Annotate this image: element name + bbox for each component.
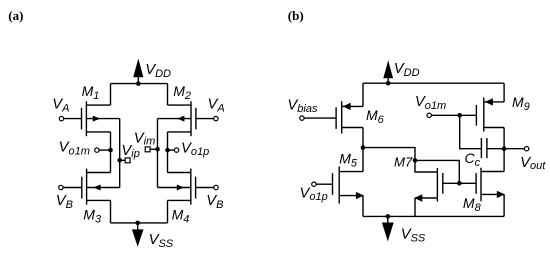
svg-text:VSS: VSS	[401, 227, 426, 245]
wire left drain column upper (a)	[110, 84, 112, 106]
label M5	[339, 151, 358, 170]
wire right drain column middle (a)	[167, 132, 169, 173]
label (a)	[8, 8, 23, 23]
svg-text:Vim: Vim	[134, 130, 155, 147]
power VSS (b)	[382, 214, 394, 241]
label VB left	[56, 193, 73, 211]
svg-text:Vo1p: Vo1p	[300, 186, 328, 203]
transistor M7	[414, 160, 459, 201]
terminal Vout	[524, 147, 528, 151]
svg-text:M8: M8	[463, 195, 482, 214]
wire bottom rail (b)	[363, 215, 504, 217]
transistor M8	[459, 168, 505, 202]
svg-text:VDD: VDD	[145, 62, 171, 80]
power VSS (a)	[132, 221, 144, 247]
terminal VB left	[59, 185, 63, 189]
label Cc	[465, 150, 481, 169]
svg-text:(a): (a)	[8, 8, 23, 23]
wire left bulk column (a)	[119, 119, 121, 188]
wire left drain column middle (a)	[110, 132, 112, 173]
node Vout junction	[502, 146, 507, 151]
label M1	[82, 83, 100, 102]
node first stage output junction	[361, 145, 366, 150]
svg-text:M4: M4	[172, 206, 190, 225]
label Vout	[520, 155, 546, 172]
wire left drain column lower (a)	[110, 200, 112, 223]
svg-text:VB: VB	[206, 193, 223, 211]
svg-text:M2: M2	[173, 83, 191, 102]
wire top rail (b)	[363, 82, 504, 84]
node M7 drain junction	[413, 158, 418, 163]
svg-text:Vo1p: Vo1p	[181, 141, 209, 158]
wire M5 source down (b)	[362, 196, 364, 217]
wire to Vout terminal	[504, 148, 524, 150]
svg-text:Vo1m: Vo1m	[59, 140, 90, 158]
node Vo1p	[165, 148, 179, 153]
wire M7 source down (b)	[414, 198, 416, 216]
svg-text:M3: M3	[83, 206, 102, 225]
wire M6 drain to M5 drain (b)	[362, 128, 364, 172]
wire node to mirror (b)	[363, 148, 415, 161]
wire bottom rail (a)	[111, 222, 168, 224]
node M9 gate junction	[457, 113, 462, 118]
label M2	[173, 83, 191, 102]
svg-text:M6: M6	[366, 107, 385, 126]
svg-text:(b): (b)	[288, 8, 304, 23]
terminal Vo1m (b)	[427, 113, 431, 117]
label Vo1p (b)	[300, 186, 328, 203]
wire M8 source down (b)	[503, 194, 505, 216]
svg-text:Vo1m: Vo1m	[415, 94, 446, 112]
terminal VA left	[59, 116, 63, 120]
svg-text:VB: VB	[56, 193, 73, 211]
label VDD (b)	[394, 61, 420, 79]
wire right drain column upper (a)	[167, 84, 169, 106]
label VA left	[52, 97, 69, 115]
wire gate node down to Cc (b)	[460, 115, 482, 148]
label Vbias	[287, 98, 318, 115]
svg-text:M5: M5	[339, 151, 358, 170]
terminal VB right	[214, 185, 218, 189]
label VSS (a)	[149, 232, 174, 250]
label VSS (b)	[401, 227, 426, 245]
node Vim	[145, 147, 160, 152]
wire top rail (a)	[111, 83, 168, 85]
wire right drain column lower (a)	[167, 200, 169, 223]
svg-text:VDD: VDD	[394, 61, 420, 79]
transistor M6	[304, 101, 363, 133]
svg-text:Cc: Cc	[465, 150, 481, 169]
svg-text:VSS: VSS	[149, 232, 174, 250]
label M3	[83, 206, 102, 225]
transistor M3	[63, 169, 120, 205]
svg-text:M1: M1	[82, 83, 100, 102]
label VA right	[208, 97, 225, 115]
label VDD (a)	[145, 62, 171, 80]
label M6	[366, 107, 385, 126]
transistor M4	[158, 169, 215, 205]
label M7	[394, 154, 413, 169]
capacitor Cc	[481, 138, 504, 158]
label Vo1p	[181, 141, 209, 158]
label Vo1m (b)	[415, 94, 446, 112]
node Vo1m	[95, 148, 113, 153]
wire M9 source up (b)	[503, 83, 505, 102]
transistor M2	[158, 101, 214, 136]
node M7/M8 gate junction	[457, 181, 462, 186]
power VDD (a)	[133, 59, 143, 86]
transistor M5	[316, 167, 364, 204]
terminal Vbias	[300, 116, 304, 120]
wire diode tie to gates (b)	[415, 160, 459, 183]
label Vim	[134, 130, 155, 147]
wire right bulk column (a)	[157, 119, 159, 188]
svg-text:VA: VA	[208, 97, 225, 115]
wire M8 drain up to output (b)	[503, 149, 505, 172]
label Vo1m	[59, 140, 90, 158]
transistor M1	[64, 101, 120, 136]
label M9	[512, 94, 530, 113]
wire M6 source up (b)	[362, 83, 364, 106]
label VB right	[206, 193, 223, 211]
label (b)	[288, 8, 304, 23]
power VDD (b)	[383, 60, 393, 85]
svg-text:Vbias: Vbias	[287, 98, 318, 115]
node Vip	[117, 158, 130, 163]
wire M9 drain down (b)	[503, 128, 505, 149]
label Vip	[121, 143, 139, 160]
svg-text:M7: M7	[394, 154, 413, 169]
terminal VA right	[214, 116, 218, 120]
label M8	[463, 195, 482, 214]
label M4	[172, 206, 190, 225]
svg-text:Vout: Vout	[520, 155, 546, 172]
svg-text:M9: M9	[512, 94, 530, 113]
terminal Vo1p (b)	[312, 182, 316, 186]
transistor M9	[431, 98, 504, 132]
svg-text:VA: VA	[52, 97, 69, 115]
